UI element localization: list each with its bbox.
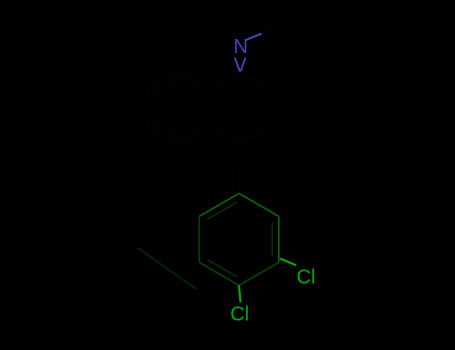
wire C2-C3 bbox=[270, 90, 272, 126]
wire aromatic inner C8a-C4a bbox=[202, 95, 204, 122]
bond N-CH3 blue half bbox=[246, 34, 262, 41]
wire aryl ML-OL bbox=[198, 216, 200, 262]
double bond C1=N line 2 (blue V right) bbox=[241, 58, 246, 72]
svg-text:Cl: Cl bbox=[230, 303, 249, 325]
wire C8a-C1 bbox=[209, 72, 240, 90]
wire C6-C7 bbox=[146, 90, 148, 126]
wire aromatic inner C5-C6 bbox=[153, 124, 176, 137]
wire C4a-C5 bbox=[178, 126, 209, 144]
wire aromatic inner OR-MR bbox=[271, 222, 273, 256]
wire aromatic inner B-ML bbox=[208, 260, 238, 277]
wire C5-C6 bbox=[147, 126, 178, 144]
dichlorophenyl ring (dark green) bbox=[199, 193, 279, 262]
wire aromatic inner OL-T bbox=[208, 202, 238, 219]
wire C4a-C8a bbox=[208, 90, 210, 126]
wire C7-C8 bbox=[147, 72, 178, 90]
wire C4-C4a bbox=[209, 126, 240, 144]
wire aryl B-ML bbox=[199, 262, 239, 285]
tetralin saturated ring (black carbon skeleton, near-invisible) bbox=[209, 72, 271, 144]
wire C1-C2 bbox=[240, 72, 271, 90]
wire aromatic inner C7-C8 bbox=[153, 80, 176, 93]
wire unidentified faint diagonal lower-left bbox=[138, 248, 196, 289]
bond C4-aryl ipso (black, near-invisible) bbox=[239, 144, 240, 193]
wire C8-C8a bbox=[178, 72, 209, 90]
wire aryl MR-B bbox=[239, 262, 279, 285]
bond B-Cl2 (bright green) bbox=[239, 285, 241, 302]
wire aryl OR-MR bbox=[278, 216, 280, 262]
wire aryl OL-T bbox=[199, 193, 239, 216]
bond N-CH3 dark half (carbon side) bbox=[262, 26, 279, 34]
double bond C1=N line 1 (blue V left) bbox=[235, 58, 240, 72]
svg-text:Cl: Cl bbox=[297, 266, 316, 288]
tetralin aromatic ring (black carbon skeleton, near-invisible) bbox=[147, 72, 209, 144]
bond MR-Cl1 (bright green) bbox=[280, 259, 296, 266]
wire C3-C4 bbox=[240, 126, 271, 144]
wire aryl T-OR bbox=[239, 193, 279, 216]
